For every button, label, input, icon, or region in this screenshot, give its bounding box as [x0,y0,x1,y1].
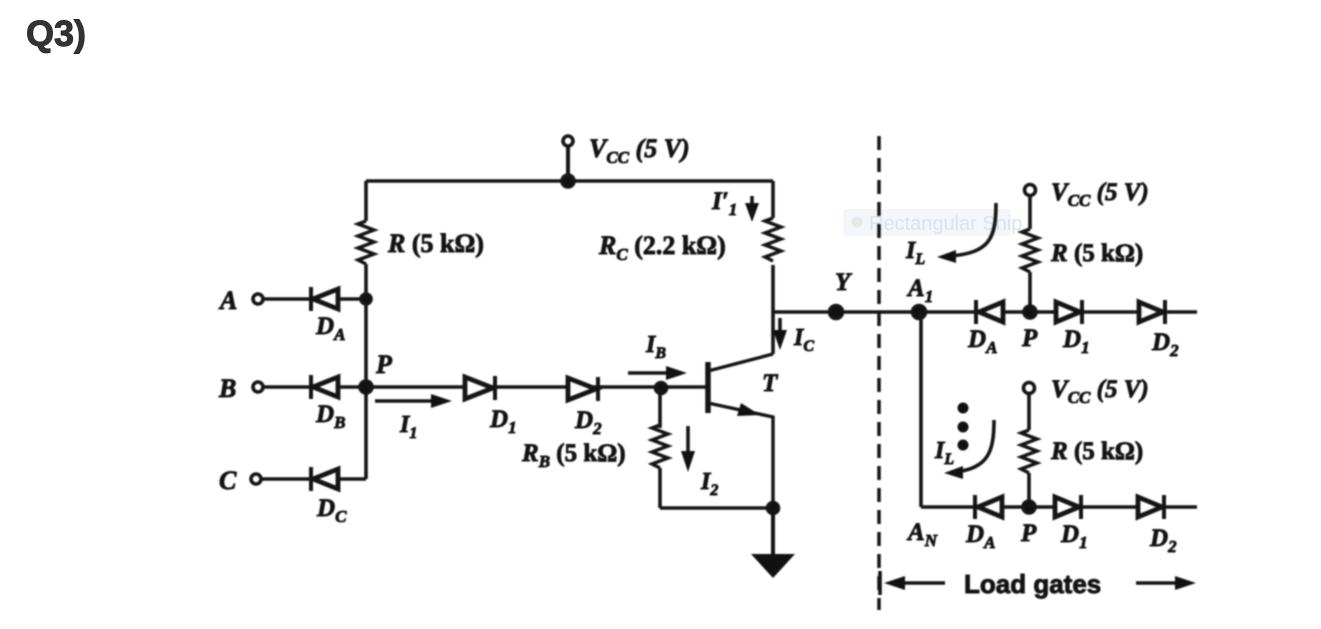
diode DA input [311,287,338,311]
diode D2 driver [568,377,598,401]
svg-text:Q3): Q3) [26,13,86,54]
svg-text:VCC (5 V): VCC (5 V) [589,134,690,167]
current arrow IL load2 [944,420,994,479]
node C terminal [251,474,261,484]
Vcc terminal driver [562,136,574,187]
svg-text:R (5 kΩ): R (5 kΩ) [1050,240,1143,267]
svg-text:A: A [218,286,237,315]
wire right vertical collector [771,181,775,354]
Vcc terminal load2 [1024,383,1035,431]
svg-text:T: T [762,370,779,397]
svg-text:P: P [375,350,393,379]
node base junction [656,383,667,394]
resistor Rc [765,218,781,261]
load gates left arrow [880,571,945,595]
diode DC input [311,467,338,491]
node P load2 [1023,501,1035,513]
svg-text:VCC (5 V): VCC (5 V) [1051,376,1149,407]
current arrow I'1 [745,196,759,222]
svg-text:R (5 kΩ): R (5 kΩ) [1050,438,1143,465]
wire load2 row [921,505,1197,509]
current arrow IL load1 [937,203,996,263]
diode D2 load2 [1138,495,1164,519]
svg-text:RB (5 kΩ): RB (5 kΩ) [521,440,626,471]
wire left bus vertical [364,181,368,479]
wire output Y [773,310,1197,314]
diode D1 load2 [1055,495,1081,519]
current arrow I2 [681,426,695,472]
wire input C [261,477,366,481]
svg-text:B: B [218,374,236,403]
wire top rail [366,179,773,183]
resistor R load2 [1021,430,1037,507]
node A terminal [253,294,263,304]
svg-text:Rectangular Snip: Rectangular Snip [869,213,1022,235]
transistor T [708,354,773,508]
svg-text:C: C [219,466,237,495]
node Y [830,306,843,319]
node A1 [913,306,926,319]
load gates right arrow [1136,576,1196,590]
wire input B [263,385,366,389]
resistor R driver [358,221,374,264]
diode D1 load1 [1056,300,1082,324]
current arrow IB [628,366,687,380]
wire input A [263,297,366,301]
diode DB input [311,375,338,399]
svg-text:P: P [1020,520,1037,547]
resistor R load1 [1022,229,1038,312]
diode D2 load1 [1139,300,1165,324]
resistor RB [652,388,668,508]
node P load1 [1024,306,1036,318]
svg-text:P: P [1021,325,1038,352]
diode DA load2 [975,495,1002,519]
node junction A row [361,294,371,304]
svg-text:R (5 kΩ): R (5 kΩ) [387,229,484,258]
wire bottom emitter return [660,506,773,510]
node P driver [360,381,372,393]
Vcc terminal load1 [1025,185,1036,230]
diode DA load1 [976,300,1003,324]
dashed separator [877,136,881,610]
node B terminal [253,382,263,392]
svg-text:Load gates: Load gates [964,569,1101,599]
current arrow IC [773,318,787,350]
watermark Rectangular Snip [843,209,1022,236]
svg-text:VCC (5 V): VCC (5 V) [1051,179,1149,210]
node ground junction [768,503,779,514]
current arrow I1 [375,394,452,408]
wire A1 down [919,312,923,507]
ground [751,508,795,578]
wire B row to base [366,385,708,389]
diode D1 driver [465,376,495,400]
ellipsis more gates [958,403,969,451]
